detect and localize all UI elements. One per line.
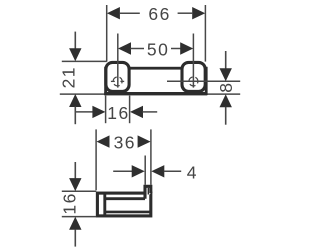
hole centerline horizontal (8 dim top extension) xyxy=(167,80,240,82)
screw hole left xyxy=(113,77,122,86)
profile (bottom view) xyxy=(97,186,150,216)
50 dim extension line right (through right hook) xyxy=(192,34,194,88)
svg-text:66: 66 xyxy=(148,4,170,24)
screw hole right xyxy=(189,77,198,86)
dimension 21 (left vertical) xyxy=(58,32,81,125)
36 dim extension line left xyxy=(95,129,97,190)
hook left (front view) xyxy=(106,62,129,91)
prong inner line xyxy=(147,188,149,195)
svg-text:36: 36 xyxy=(114,133,136,153)
inner bottom line xyxy=(105,211,151,214)
dimension 50 xyxy=(118,39,193,59)
50 dim extension line left (through left hook) xyxy=(117,34,119,88)
svg-text:21: 21 xyxy=(58,66,78,88)
dimension 4 xyxy=(113,156,198,185)
bar bottom edge over hooks xyxy=(104,92,207,95)
wall bar (front view) xyxy=(106,68,207,94)
dimension 36 xyxy=(97,133,151,153)
inner top line xyxy=(105,197,145,200)
66 dim extension line right xyxy=(204,5,206,62)
svg-text:4: 4 xyxy=(187,162,198,182)
36/4 dim shared extension line right xyxy=(150,129,152,184)
left hole centermark ticks xyxy=(111,80,115,82)
outer body xyxy=(97,193,150,216)
svg-text:50: 50 xyxy=(147,39,169,59)
inner vertical (wall plate) xyxy=(103,193,106,216)
dimension 66 xyxy=(107,4,205,24)
svg-text:8: 8 xyxy=(216,81,236,92)
svg-text:16: 16 xyxy=(107,103,129,123)
dimension 16 (front view bottom) xyxy=(76,96,157,124)
shared bottom extension line (21 / 8 dims) xyxy=(60,93,240,95)
dimension 16 (bottom view left) xyxy=(60,162,97,247)
svg-text:16: 16 xyxy=(60,192,80,214)
prong xyxy=(145,186,151,199)
extension line top of hooks (21 dim) xyxy=(62,60,107,62)
dimension 8 (right vertical) xyxy=(216,51,236,125)
hook right (front view) xyxy=(182,62,205,91)
66 dim extension line left xyxy=(106,5,108,62)
